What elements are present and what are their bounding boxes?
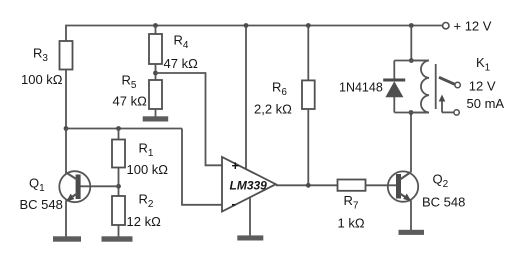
svg-text:BC 548: BC 548 <box>422 195 465 210</box>
svg-text:K1: K1 <box>476 55 491 74</box>
wire Q1 emitter <box>65 201 67 237</box>
svg-text:1 kΩ: 1 kΩ <box>338 216 365 231</box>
svg-text:R5: R5 <box>122 73 137 92</box>
wire relay top node <box>394 60 429 62</box>
svg-text:47 kΩ: 47 kΩ <box>164 56 199 71</box>
wire R6 top lead <box>307 26 309 81</box>
resistor R3 <box>60 41 73 70</box>
svg-text:12 V: 12 V <box>469 79 496 94</box>
svg-text:Q2: Q2 <box>433 172 449 191</box>
wire Q2 collector <box>410 113 412 173</box>
node R1/R2 junction <box>116 184 121 189</box>
transistor Q2 <box>388 171 418 201</box>
diode D1 1N4148 <box>383 61 405 113</box>
ground under op-amp <box>237 235 263 240</box>
wire R1 top lead <box>118 129 120 140</box>
svg-text:R3: R3 <box>33 46 48 65</box>
svg-text:LM339: LM339 <box>230 179 268 193</box>
resistor R6 <box>302 80 315 109</box>
svg-text:+: + <box>232 158 240 173</box>
op-amp U1 LM339 <box>222 157 276 212</box>
wire R5 bottom lead <box>155 109 157 117</box>
resistor R4 <box>149 34 162 64</box>
svg-text:12 kΩ: 12 kΩ <box>127 214 162 229</box>
wire R3 bottom to node A <box>65 70 67 129</box>
wire R4 to R5 <box>155 64 157 80</box>
node R4 top <box>153 23 158 28</box>
svg-text:-: - <box>232 196 236 211</box>
resistor R2 <box>112 196 125 225</box>
svg-text:50 mA: 50 mA <box>467 96 505 111</box>
ground under Q1 <box>53 236 81 241</box>
svg-text:2,2 kΩ: 2,2 kΩ <box>254 102 292 117</box>
transistor Q1 <box>59 171 90 202</box>
ground under Q2 <box>399 230 425 235</box>
wire relay bottom node <box>394 112 429 114</box>
wire R6 bottom lead <box>307 109 309 185</box>
svg-text:BC 548: BC 548 <box>20 197 63 212</box>
terminal +12V <box>443 23 449 29</box>
node R4/R5 junction <box>153 71 158 76</box>
wire R4 top lead <box>155 26 157 35</box>
wire Q1 base <box>81 185 119 187</box>
node R6 top <box>306 23 311 28</box>
node R1 top <box>116 126 121 131</box>
wire op-amp ground <box>249 197 251 236</box>
relay K1 coil <box>411 61 436 113</box>
svg-text:47 kΩ: 47 kΩ <box>113 94 148 109</box>
node relay top <box>409 58 414 63</box>
wire to inverting input <box>182 129 222 205</box>
wire rail to relay top <box>410 26 412 61</box>
wire Q2 emitter <box>410 201 412 231</box>
wire Q1 collector <box>65 129 67 174</box>
resistor R5 <box>149 80 162 109</box>
resistor R1 <box>112 140 125 168</box>
svg-text:R4: R4 <box>174 33 189 52</box>
node op-amp supply <box>244 23 249 28</box>
wire to non-inverting input <box>156 73 223 165</box>
wire R7 to Q2 base <box>366 184 397 186</box>
wire R3 top lead <box>65 25 67 41</box>
svg-text:R6: R6 <box>272 80 287 99</box>
wire R1 to R2 <box>118 168 120 197</box>
wire R2 bottom lead <box>118 225 120 237</box>
ground under R5 <box>143 116 169 121</box>
wire op-amp output <box>276 184 338 186</box>
wire node A to R1 top <box>66 128 182 130</box>
node relay bottom <box>409 110 414 115</box>
svg-text:1N4148: 1N4148 <box>339 81 383 95</box>
svg-text:R2: R2 <box>139 192 154 211</box>
ground under R2 <box>102 236 133 241</box>
svg-text:+ 12 V: + 12 V <box>454 19 492 34</box>
node A <box>64 126 69 131</box>
wire +12V rail <box>66 25 443 27</box>
node output/R6 <box>306 183 311 188</box>
relay K1 contact <box>439 77 461 115</box>
node relay branch on rail <box>409 23 414 28</box>
svg-text:Q1: Q1 <box>29 176 45 195</box>
resistor R7 <box>338 180 366 191</box>
wire op-amp supply <box>245 26 247 169</box>
svg-text:R7: R7 <box>344 193 359 212</box>
svg-text:100 kΩ: 100 kΩ <box>127 162 169 177</box>
svg-text:R1: R1 <box>139 141 154 160</box>
svg-text:100 kΩ: 100 kΩ <box>21 72 63 87</box>
